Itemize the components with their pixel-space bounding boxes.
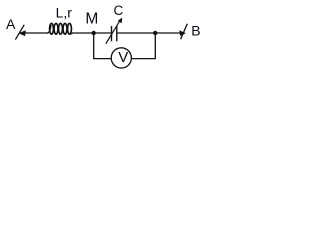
svg-text:V: V — [118, 49, 128, 66]
wire coil to node M — [72, 32, 95, 34]
svg-text:A: A — [6, 16, 16, 32]
right node dot — [153, 31, 157, 35]
terminal B arrowhead — [179, 30, 186, 36]
svg-text:M: M — [85, 11, 98, 28]
capacitor variable arrow shaft — [106, 20, 120, 44]
terminal A slash — [15, 25, 24, 40]
inductor L,r coil lead-in — [48, 25, 52, 33]
wire A to coil — [24, 32, 49, 34]
inductor L,r loop 2 — [54, 23, 58, 34]
inductor L,r loop 3 — [59, 23, 63, 34]
wire M to capacitor — [94, 32, 111, 34]
capacitor C left plate — [111, 26, 113, 41]
terminal B slash — [181, 24, 188, 39]
wire voltmeter right up to node — [132, 33, 156, 59]
svg-text:C: C — [114, 3, 124, 18]
capacitor C right plate — [116, 26, 118, 41]
capacitor variable arrow head — [118, 18, 123, 24]
inductor L,r loop 5 — [68, 23, 72, 34]
inductor L,r loop 4 — [63, 23, 67, 34]
inductor L,r loop 1 — [50, 23, 54, 34]
wire capacitor to terminal B — [117, 32, 181, 34]
svg-text:L,r: L,r — [56, 5, 73, 21]
wire M down and right to voltmeter — [94, 33, 112, 59]
svg-text:B: B — [191, 22, 200, 38]
inductor L,r coil lead-out — [70, 33, 73, 34]
voltmeter U circle — [111, 48, 131, 68]
terminal A arrowhead — [19, 30, 26, 36]
node M dot — [92, 31, 96, 35]
